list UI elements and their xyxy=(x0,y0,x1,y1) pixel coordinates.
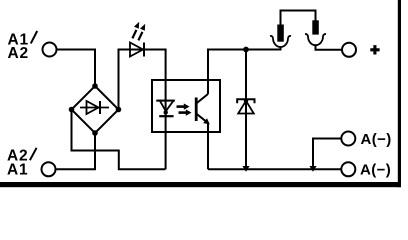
node zener top xyxy=(243,47,249,53)
wire bridge right up to LED rail xyxy=(119,50,166,110)
bridge node bottom xyxy=(92,130,98,136)
wire upper A(-) branch xyxy=(313,139,341,167)
output bottom rail xyxy=(208,168,341,170)
svg-text:A(−): A(−) xyxy=(361,131,392,148)
relay contact bridge wire xyxy=(281,11,316,26)
label + xyxy=(370,45,379,54)
terminal A(-) lower xyxy=(341,162,355,176)
bridge rectifier B1 diamond xyxy=(72,86,119,133)
phototransistor Q1 xyxy=(196,94,210,124)
optocoupler U1 box xyxy=(152,80,220,132)
optocoupler LED xyxy=(156,101,175,117)
wire A1 terminal to bridge top xyxy=(57,50,96,87)
LED indicator diode xyxy=(130,43,144,57)
wire bridge left to bottom rail (staircase) xyxy=(72,110,166,170)
wire emitter to bottom rail xyxy=(207,123,209,169)
opto light arrows xyxy=(177,103,192,115)
wire right contact to + terminal xyxy=(316,45,342,50)
wire opto cathode down to input rail xyxy=(165,101,167,170)
junction arrow upper branch xyxy=(309,166,316,172)
terminal A1/A2 xyxy=(43,43,57,57)
junction arrow zener-bottom xyxy=(242,166,249,172)
label A1/A2 (top left) xyxy=(8,31,38,62)
bridge node left xyxy=(69,107,75,113)
terminal A(-) upper xyxy=(341,132,355,146)
contact pin left xyxy=(277,25,284,42)
wire collector to output rail xyxy=(208,47,281,94)
terminal + circle xyxy=(342,43,356,57)
LED light arrows xyxy=(132,22,145,41)
suppressor diode Z1 wire xyxy=(245,50,247,170)
wire left contact to collector rail xyxy=(280,47,282,50)
contact pin right xyxy=(312,20,319,34)
svg-text:A1: A1 xyxy=(7,162,28,179)
bridge diode symbol xyxy=(80,101,109,114)
svg-text:A2: A2 xyxy=(8,45,29,62)
contact socket right xyxy=(305,34,326,45)
bridge node right xyxy=(116,107,122,113)
svg-text:A(−): A(−) xyxy=(360,161,391,178)
contact socket left xyxy=(270,36,291,47)
wire A2 terminal to bridge bottom xyxy=(56,133,96,169)
terminal A2/A1 xyxy=(42,162,56,176)
bridge node top xyxy=(92,83,98,89)
suppressor diode Z1 xyxy=(237,98,254,113)
label A2/A1 (bottom left) xyxy=(7,147,37,178)
